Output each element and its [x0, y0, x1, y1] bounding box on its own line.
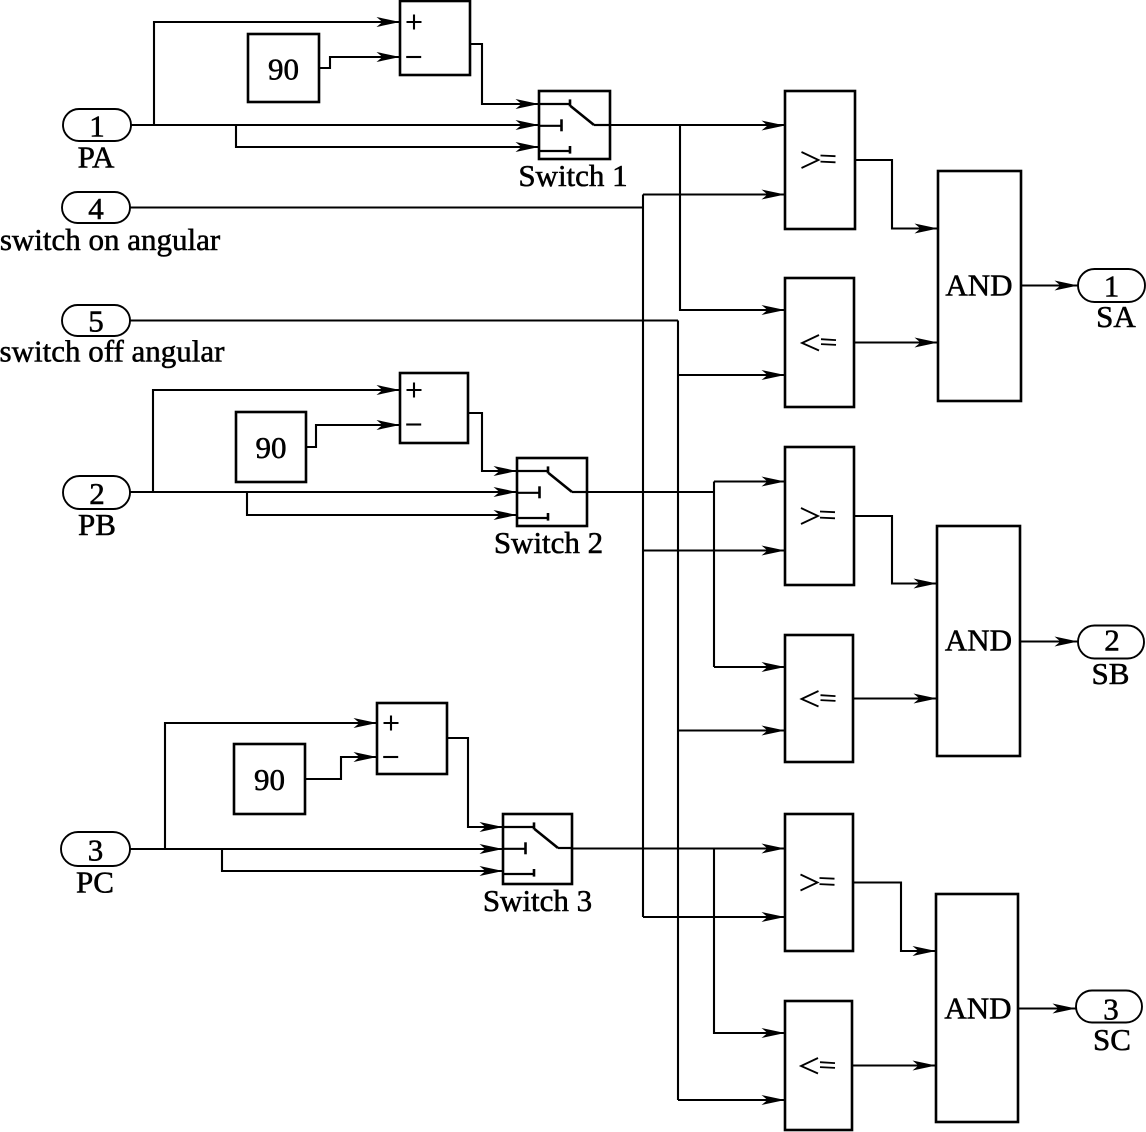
logical operator AND C — [936, 894, 1018, 1122]
switch Switch 3 — [483, 814, 592, 918]
wire 90C to Sum C minus input — [305, 752, 377, 779]
wire Sum A to Switch 1 top input — [470, 44, 539, 109]
wire <= C to AND C second input — [852, 1061, 936, 1071]
svg-text:90: 90 — [256, 430, 287, 465]
svg-text:SA: SA — [1096, 299, 1136, 334]
svg-text:90: 90 — [254, 762, 285, 797]
wire Sum B to Switch 2 top input — [468, 413, 517, 476]
wire switch-off bus to <= C second input — [678, 1095, 785, 1105]
wire PB to Switch 2 middle input — [130, 487, 517, 497]
svg-text:PA: PA — [78, 140, 115, 175]
wire switch-on bus from port 4 — [130, 195, 643, 918]
svg-text:AND: AND — [944, 991, 1011, 1026]
constant block 90 (A) — [248, 34, 319, 102]
svg-text:2: 2 — [1104, 623, 1120, 658]
logical operator AND B — [937, 526, 1020, 756]
svg-text:switch on angular: switch on angular — [0, 222, 221, 257]
wire Switch 2 output branch node — [587, 482, 714, 668]
wire <= B to AND B second input — [853, 694, 937, 704]
wire 90B to Sum B minus input — [306, 420, 400, 447]
inport 1 PA — [63, 108, 131, 174]
outport 2 SB — [1078, 623, 1144, 692]
wire PB branch up to Sum B plus input — [153, 385, 400, 492]
wire PC to Switch 3 middle input — [130, 844, 503, 854]
wire PA to Switch 1 middle input — [131, 120, 539, 130]
wire AND A to outport SA — [1021, 281, 1078, 291]
svg-text:switch off angular: switch off angular — [0, 334, 225, 369]
wire AND B to outport SB — [1020, 637, 1078, 647]
wire Switch 1 output to relational >= A first input — [610, 121, 785, 131]
svg-text:1: 1 — [89, 108, 105, 143]
svg-text:PB: PB — [78, 507, 116, 542]
inport 5 switch off angular — [0, 304, 225, 369]
logical operator AND A — [938, 171, 1021, 401]
wire branch to relational <= B first input — [714, 662, 785, 672]
wire switch-on bus to >= B second input — [643, 546, 785, 556]
wire Switch 1 branch down to relational <= A first input — [680, 125, 785, 315]
wire PA branch down to Switch 1 bottom input — [236, 125, 539, 152]
wire switch-on bus to >= C second input — [643, 912, 785, 922]
relational operator <= A — [785, 278, 854, 407]
switch Switch 2 — [494, 458, 603, 560]
wire >= B to AND B first input — [854, 516, 937, 589]
wire Sum C to Switch 3 top input — [447, 738, 503, 832]
inport 2 PB — [63, 476, 130, 542]
relational operator >= A — [785, 91, 855, 229]
switch Switch 1 — [518, 91, 627, 193]
svg-text:4: 4 — [88, 191, 104, 226]
sum block B (+/-) — [400, 373, 468, 443]
inport 3 PC — [61, 832, 130, 900]
constant block 90 (C) — [234, 744, 305, 814]
wire PC branch down to Switch 3 bottom input — [222, 849, 503, 876]
wire PB branch down to Switch 2 bottom input — [247, 492, 517, 520]
svg-text:Switch 3: Switch 3 — [483, 883, 592, 918]
wire >= A to AND A first input — [855, 160, 938, 234]
wire PA branch up to Sum A plus input — [154, 17, 400, 125]
svg-text:SC: SC — [1093, 1022, 1131, 1057]
svg-text:Switch 2: Switch 2 — [494, 525, 603, 560]
wire PC branch up to Sum C plus input — [165, 718, 377, 849]
relational operator <= B — [785, 635, 853, 762]
wire switch-off bus from port 5 — [130, 321, 678, 1101]
wire switch-off bus to <= A second input — [678, 370, 785, 380]
svg-text:Switch 1: Switch 1 — [518, 158, 627, 193]
svg-text:AND: AND — [945, 268, 1012, 303]
wire branch to relational >= B first input — [714, 477, 785, 487]
relational operator <= C — [785, 1001, 852, 1130]
svg-text:3: 3 — [88, 833, 104, 868]
outport 3 SC — [1076, 991, 1142, 1058]
svg-text:AND: AND — [945, 623, 1012, 658]
relational operator >= B — [785, 447, 854, 585]
sum block A (+/-) — [400, 1, 470, 75]
inport 4 switch on angular — [0, 191, 221, 257]
wire 90A to Sum A minus input — [319, 52, 400, 68]
relational operator >= C — [785, 814, 853, 951]
wire AND C to outport SC — [1018, 1004, 1076, 1014]
wire Switch 3 branch down to relational <= C first input — [714, 849, 785, 1039]
wire >= C to AND C first input — [853, 883, 936, 957]
wire <= A to AND A second input — [854, 338, 938, 348]
svg-text:90: 90 — [268, 52, 299, 87]
wire switch-off bus to <= B second input — [678, 726, 785, 736]
constant block 90 (B) — [236, 412, 306, 482]
sum block C (+/-) — [377, 703, 447, 774]
wire Switch 3 output to relational >= C first input — [572, 844, 785, 854]
svg-text:PC: PC — [76, 865, 114, 900]
outport 1 SA — [1078, 269, 1145, 335]
svg-text:SB: SB — [1092, 656, 1130, 691]
wire switch-on bus to >= A second input — [643, 190, 785, 200]
svg-text:2: 2 — [89, 476, 105, 511]
